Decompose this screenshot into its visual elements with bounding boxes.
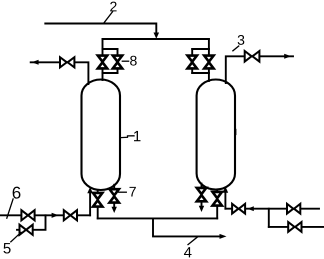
valve on line 5: [20, 225, 27, 235]
valve on line 3: [245, 51, 252, 62]
wire left merge: [103, 72, 118, 74]
arrow into right vessel (points up): [223, 187, 229, 193]
valve C vent below right vessel: [201, 184, 203, 188]
wire left export line: [31, 62, 89, 84]
wire line 4 branch: [153, 218, 220, 236]
wire right down-leg to vessel dome: [208, 73, 210, 81]
svg-text:8: 8: [129, 52, 137, 68]
wire riser into left vessel bottom: [89, 193, 91, 216]
wire junction drop to lower feed branch: [268, 209, 270, 227]
svg-text:1: 1: [133, 128, 141, 145]
wire line 3 riser from right vessel dome: [226, 56, 293, 83]
tick mark on right vessel wall: [235, 129, 237, 135]
svg-text:3: 3: [237, 32, 245, 48]
arrow into left vessel (points up): [87, 187, 93, 193]
arrow line 3 export (points right): [284, 54, 291, 59]
arrow down from line 2 into distribution header: [154, 33, 160, 39]
label 3 leader: [233, 46, 239, 51]
arrow line 4 (points right): [220, 234, 227, 239]
arrow left export (points left): [32, 60, 39, 65]
valve A below left vessel (to bottom header): [97, 191, 99, 193]
valve D below right vessel (to bottom header): [216, 190, 218, 192]
svg-text:4: 4: [184, 244, 192, 259]
wire right assembly drop from header: [208, 39, 210, 49]
wire right feed lower line: [269, 226, 324, 228]
label 5 leader: [11, 232, 21, 241]
valve on line 6: [21, 210, 28, 220]
valve on right feed lower: [288, 222, 294, 232]
wire feed line 6: [0, 214, 90, 216]
vessel 1 (left adsorber): [82, 80, 121, 191]
valve 8 right (vertical): [117, 49, 119, 56]
wire feed line 5: [17, 215, 46, 230]
wire left assembly drop from header: [102, 39, 104, 49]
wire riser into right vessel bottom: [224, 192, 226, 209]
wire line 2 top header: [45, 24, 156, 34]
arrow flow on line 6 (points right): [52, 213, 59, 218]
valve far on right feed upper: [287, 204, 293, 214]
valve near right vessel: [232, 204, 238, 214]
svg-text:7: 7: [129, 183, 137, 199]
arrow vent B (points down): [112, 207, 117, 213]
label 7 dash: [119, 191, 127, 193]
valve 8 left (vertical): [102, 49, 104, 56]
wire distribution header: [103, 38, 209, 40]
wire right feed upper line: [225, 208, 319, 210]
valve on left export line: [60, 57, 67, 67]
vessel 2 (right adsorber): [197, 80, 235, 190]
second valve on line 6: [64, 210, 71, 220]
svg-text:6: 6: [12, 183, 22, 202]
valve B vent below left vessel: [113, 185, 115, 189]
label 2 leader: [104, 12, 113, 23]
wire right splitter: [192, 48, 209, 50]
label 8 dash: [122, 60, 128, 62]
valve pair right vessel - right valve (vertical): [208, 49, 210, 56]
svg-text:5: 5: [3, 240, 11, 257]
wire left splitter: [103, 48, 118, 50]
svg-text:2: 2: [109, 0, 117, 14]
label 4 leader: [188, 237, 197, 245]
wire right merge: [192, 72, 209, 74]
arrow flow toward right vessel (points left): [247, 206, 254, 211]
arrow vent C (points down): [199, 206, 204, 212]
valve pair right vessel - left valve (vertical): [191, 49, 193, 56]
wire left down-leg to vessel dome: [102, 73, 104, 80]
wire bottom header: [98, 217, 218, 219]
label 1 leader: [121, 136, 134, 138]
label 6 leader: [7, 199, 13, 218]
